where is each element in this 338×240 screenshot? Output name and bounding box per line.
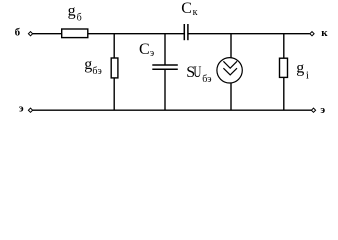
svg-text:к: к — [193, 7, 198, 18]
resistor g_бэ — [111, 58, 118, 78]
current source arrows — [223, 61, 237, 75]
svg-text:э: э — [320, 104, 325, 116]
terminal э right (diamond) — [311, 108, 315, 112]
capacitor C_э — [152, 65, 178, 69]
svg-text:g: g — [68, 2, 76, 19]
terminal э left (emitter node, diamond) — [28, 108, 32, 112]
svg-text:э: э — [19, 103, 24, 115]
svg-text:C: C — [181, 0, 192, 17]
terminal б (input node, diamond) — [28, 32, 32, 36]
wire top rail g_б to C_к — [88, 33, 184, 35]
svg-text:бэ: бэ — [202, 74, 211, 85]
svg-text:к: к — [321, 27, 328, 39]
svg-text:g: g — [84, 56, 92, 73]
label C_э — [139, 41, 154, 59]
svg-text:б: б — [15, 27, 21, 39]
wire g_i branch upper — [283, 34, 285, 59]
svg-text:U: U — [193, 64, 201, 81]
terminal к (collector node, diamond) — [310, 32, 314, 36]
svg-text:э: э — [150, 48, 154, 59]
svg-text:g: g — [296, 59, 304, 76]
label g_бэ — [84, 56, 102, 77]
wire g_бэ branch lower — [113, 78, 115, 110]
label g_i — [296, 59, 309, 81]
wire bottom rail — [33, 109, 312, 111]
svg-text:бэ: бэ — [92, 66, 101, 77]
wire SU branch upper — [230, 34, 232, 58]
wire SU branch lower — [230, 83, 232, 111]
resistor g_i — [280, 58, 288, 77]
resistor g_б — [62, 29, 88, 38]
wire g_бэ branch upper — [113, 34, 115, 58]
wire б to R g_б — [33, 33, 61, 35]
svg-text:б: б — [77, 12, 82, 23]
svg-text:i: i — [306, 70, 309, 82]
current source SU_бэ (circle) — [217, 58, 242, 83]
capacitor C_к — [184, 24, 188, 40]
wire C_э branch upper — [164, 34, 166, 65]
label g_б — [68, 2, 82, 23]
svg-text:C: C — [139, 41, 150, 58]
label C_к — [181, 0, 197, 18]
wire g_i branch lower — [283, 77, 285, 110]
label SU_бэ — [186, 64, 211, 85]
wire top rail C_к to к — [188, 33, 310, 35]
wire C_э branch lower — [164, 69, 166, 110]
